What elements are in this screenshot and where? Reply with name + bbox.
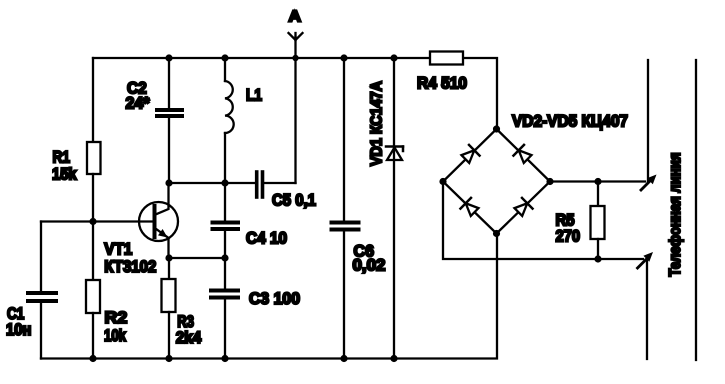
- svg-text:24*: 24*: [126, 95, 151, 113]
- node C4/C3 junction: [221, 254, 228, 261]
- svg-text:КТ3102: КТ3102: [104, 258, 156, 276]
- wire bridge right vertex to line: [550, 180, 645, 182]
- diode VD2 (top-left arm): [460, 145, 479, 164]
- resistor R5: [591, 206, 605, 239]
- wire L1 top lead: [224, 58, 226, 81]
- zener diode VD1: [386, 145, 403, 148]
- svg-text:10н: 10н: [6, 321, 31, 339]
- node antenna / top rail: [292, 55, 298, 61]
- wire C5 right lead: [263, 182, 296, 184]
- node R5 bottom: [594, 255, 601, 262]
- wire C6 upper lead: [343, 58, 345, 220]
- node L1 top: [221, 54, 228, 61]
- node C6 top: [340, 54, 347, 61]
- node C6 bottom: [340, 355, 347, 362]
- node R3 bottom: [165, 355, 172, 362]
- wire R5 bottom lead: [597, 239, 599, 259]
- node R2 bottom: [89, 355, 96, 362]
- capacitor C4: [213, 221, 239, 225]
- wire C3 bottom lead: [224, 298, 226, 359]
- node VD1 top: [390, 54, 397, 61]
- wire R3 bottom lead: [168, 312, 170, 359]
- svg-text:15k: 15k: [52, 166, 77, 184]
- capacitor C1: [28, 291, 56, 295]
- svg-text:R4 510: R4 510: [417, 75, 467, 93]
- node base junction: [89, 218, 96, 225]
- svg-text:R1: R1: [53, 149, 71, 167]
- wire C2 top lead: [168, 58, 170, 108]
- wire R1 bottom lead: [92, 174, 94, 222]
- diode VD4 (bottom-left arm): [460, 198, 479, 217]
- node bridge top vertex: [493, 125, 500, 132]
- svg-text:270: 270: [556, 228, 581, 246]
- wire R3 top lead: [168, 258, 170, 279]
- resistor R1: [87, 142, 101, 174]
- svg-text:L1: L1: [246, 87, 262, 105]
- node bridge bottom vertex: [493, 230, 500, 237]
- svg-text:VT1: VT1: [104, 241, 132, 259]
- transistor VT1: [139, 202, 178, 241]
- antenna symbol: [289, 33, 303, 40]
- inductor L1: [225, 81, 234, 133]
- wire left vertical top (R1 branch): [92, 58, 94, 142]
- capacitor C5: [255, 172, 259, 197]
- resistor R3: [162, 279, 176, 312]
- node C3 bottom: [221, 355, 228, 362]
- resistor R4: [430, 52, 463, 65]
- wire L1 bottom lead: [224, 133, 226, 183]
- node bridge right vertex: [546, 178, 553, 185]
- wire C3 top lead: [224, 258, 226, 288]
- svg-text:C4 10: C4 10: [246, 230, 287, 248]
- node C2 top: [165, 54, 172, 61]
- node bridge left vertex: [439, 178, 446, 185]
- capacitor C3: [211, 289, 238, 293]
- svg-text:C5 0,1: C5 0,1: [272, 192, 316, 210]
- diode VD5 (bottom-right arm): [513, 198, 532, 217]
- svg-text:R2: R2: [105, 309, 128, 327]
- wire VD1 upper lead: [393, 58, 395, 147]
- wire top rail: [93, 57, 430, 59]
- svg-text:0,02: 0,02: [353, 257, 386, 275]
- wire C4 bottom lead: [224, 229, 226, 258]
- node VD1 bottom: [390, 355, 397, 362]
- capacitor C6: [332, 221, 359, 225]
- svg-text:C3 100: C3 100: [249, 290, 300, 308]
- svg-text:10k: 10k: [104, 327, 127, 345]
- arrow to line upper: [641, 180, 651, 190]
- wire phone line right conductor: [695, 60, 697, 360]
- wire R2 bottom lead: [92, 313, 94, 359]
- svg-text:2k4: 2k4: [176, 329, 202, 347]
- wire C1 branch upper: [40, 222, 42, 292]
- resistor R2: [86, 280, 100, 313]
- wire R5 top lead: [597, 182, 599, 207]
- node L1/C4 junction: [221, 179, 228, 186]
- svg-text:VD2-VD5 КЦ407: VD2-VD5 КЦ407: [512, 113, 628, 131]
- node collector: [165, 179, 172, 186]
- wire phone line left conductor lower: [646, 259, 648, 359]
- arrow to line lower: [638, 258, 648, 268]
- capacitor C2: [157, 108, 182, 112]
- wire emitter row to C3 branch: [169, 257, 225, 259]
- wire R4 right lead to bridge top: [463, 58, 497, 126]
- wire C4 top lead: [224, 183, 226, 220]
- wire phone line left conductor upper: [647, 60, 649, 182]
- diode bridge arms VD2-VD5: [443, 129, 550, 234]
- wire base row: [41, 220, 153, 222]
- wire bridge left vertex down and across: [443, 182, 643, 260]
- node emitter junction: [165, 254, 172, 261]
- svg-text:Телефонная линия: Телефонная линия: [667, 153, 684, 277]
- svg-text:A: A: [289, 9, 302, 26]
- wire collector row to C5: [169, 182, 255, 184]
- wire R2 top lead: [92, 222, 94, 281]
- svg-text:VD1 КС147А: VD1 КС147А: [369, 81, 386, 166]
- wire C1 lower lead: [40, 303, 42, 359]
- wire VD1 lower lead: [393, 147, 395, 359]
- wire C6 lower lead: [343, 230, 345, 359]
- node R5 top: [594, 178, 601, 185]
- wire bottom rail: [41, 234, 497, 359]
- wire C2 bottom lead to collector node: [168, 116, 170, 183]
- diode VD3 (top-right arm): [513, 145, 532, 164]
- wire antenna vertical: [294, 37, 296, 183]
